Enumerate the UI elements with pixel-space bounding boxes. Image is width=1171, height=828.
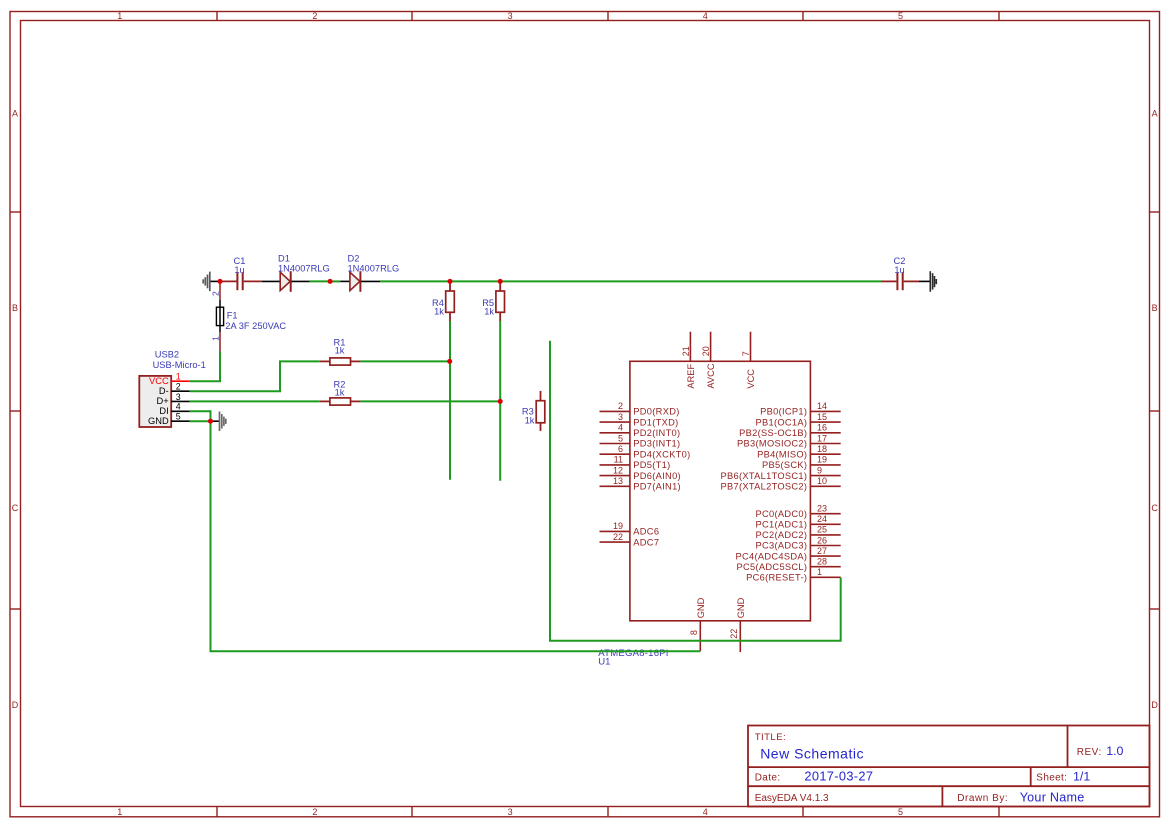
svg-text:3: 3	[508, 807, 513, 817]
svg-text:8: 8	[689, 630, 699, 635]
svg-text:1: 1	[176, 372, 181, 382]
resistor R2 1k	[320, 379, 361, 405]
wire R5 bottom stub	[499, 321, 501, 481]
svg-text:19: 19	[817, 455, 827, 465]
svg-text:20: 20	[701, 346, 711, 356]
svg-text:PD1(TXD): PD1(TXD)	[633, 417, 678, 427]
svg-text:PB7(XTAL2TOSC2): PB7(XTAL2TOSC2)	[720, 482, 807, 492]
svg-text:D1: D1	[278, 253, 290, 263]
svg-text:TITLE:: TITLE:	[755, 732, 787, 743]
svg-text:2: 2	[211, 291, 221, 296]
svg-text:AREF: AREF	[686, 363, 696, 388]
svg-text:PB1(OC1A): PB1(OC1A)	[756, 417, 808, 427]
svg-text:USB2: USB2	[155, 350, 179, 360]
svg-text:D+: D+	[157, 396, 169, 406]
svg-text:D: D	[12, 700, 19, 710]
svg-text:GND: GND	[148, 416, 169, 426]
svg-text:New Schematic: New Schematic	[760, 745, 864, 761]
title block	[748, 726, 1150, 807]
svg-text:A: A	[1152, 109, 1158, 119]
svg-text:A: A	[12, 109, 18, 119]
svg-text:VCC: VCC	[149, 376, 169, 386]
svg-text:C: C	[1151, 503, 1158, 513]
svg-text:5: 5	[618, 433, 623, 443]
wire R4 bottom stub	[449, 321, 451, 480]
resistor R1 1k	[320, 337, 361, 365]
node junction (R1 / R4 column)	[447, 359, 452, 364]
svg-text:9: 9	[817, 465, 822, 475]
svg-text:USB-Micro-1: USB-Micro-1	[153, 360, 206, 370]
svg-text:26: 26	[817, 535, 827, 545]
svg-text:11: 11	[614, 455, 623, 465]
wire net from x550 down to RESET pin	[550, 341, 841, 641]
svg-text:GND: GND	[736, 597, 746, 618]
svg-text:5: 5	[898, 11, 903, 21]
wire R2 right to R5 column	[360, 400, 500, 402]
svg-text:15: 15	[817, 412, 827, 422]
svg-text:C: C	[12, 503, 19, 513]
svg-text:2A 3F 250VAC: 2A 3F 250VAC	[225, 321, 286, 331]
svg-text:1N4007RLG: 1N4007RLG	[348, 263, 400, 273]
svg-text:PD5(T1): PD5(T1)	[633, 460, 670, 470]
wire DI: USB pin4 bend down	[190, 411, 211, 421]
svg-text:3: 3	[508, 11, 513, 21]
svg-text:PB2(SS-OC1B): PB2(SS-OC1B)	[739, 428, 807, 438]
wire D+: USB pin3 to R2 left	[190, 400, 320, 402]
resistor R5 1k	[482, 281, 504, 321]
svg-text:Date:: Date:	[755, 773, 781, 784]
svg-text:PC0(ADC0): PC0(ADC0)	[756, 509, 808, 519]
svg-text:28: 28	[817, 557, 827, 567]
svg-text:F1: F1	[227, 310, 238, 320]
svg-text:1.0: 1.0	[1106, 744, 1123, 758]
wire GND: USB pin5 to ground node	[190, 420, 211, 422]
svg-text:1k: 1k	[434, 307, 444, 317]
svg-text:PC6(RESET-): PC6(RESET-)	[746, 573, 807, 583]
IC U1 ATMEGA8-16PI body	[630, 361, 811, 621]
svg-text:Your Name: Your Name	[1020, 790, 1085, 804]
svg-text:1N4007RLG: 1N4007RLG	[278, 263, 330, 273]
U1 left pins PD0-PD7	[600, 401, 691, 491]
svg-text:PD3(INT1): PD3(INT1)	[633, 439, 680, 449]
svg-text:PC3(ADC3): PC3(ADC3)	[756, 541, 808, 551]
svg-text:VCC: VCC	[746, 369, 756, 389]
svg-text:PD4(XCKT0): PD4(XCKT0)	[633, 449, 690, 459]
U1 right pins PB0-PB7	[720, 401, 840, 491]
resistor R4 1k	[432, 281, 454, 321]
svg-text:U1: U1	[598, 656, 610, 667]
svg-text:EasyEDA V4.1.3: EasyEDA V4.1.3	[755, 793, 829, 804]
svg-text:1: 1	[211, 336, 221, 341]
svg-text:2: 2	[618, 401, 623, 411]
svg-text:Sheet:: Sheet:	[1036, 773, 1067, 784]
svg-text:1k: 1k	[525, 415, 535, 425]
node junction (top rail / F1 branch)	[218, 279, 223, 284]
capacitor C1 1u	[220, 256, 262, 290]
fuse F1 2A 3F 250VAC	[211, 281, 287, 351]
ground (USB GND earth symbol)	[211, 412, 226, 432]
svg-text:PD7(AIN1): PD7(AIN1)	[633, 482, 681, 492]
svg-text:18: 18	[817, 444, 827, 454]
svg-text:PC5(ADC5SCL): PC5(ADC5SCL)	[737, 562, 808, 572]
svg-text:REV:: REV:	[1077, 747, 1102, 758]
svg-text:5: 5	[176, 412, 181, 422]
svg-text:22: 22	[613, 532, 623, 542]
capacitor C2 1u	[881, 256, 919, 290]
svg-text:PD6(AIN0): PD6(AIN0)	[633, 471, 681, 481]
svg-text:10: 10	[817, 476, 827, 486]
svg-text:7: 7	[741, 351, 751, 356]
node junction (top rail / R4)	[448, 279, 453, 284]
svg-text:27: 27	[817, 546, 827, 556]
svg-text:4: 4	[176, 402, 181, 412]
svg-text:PB3(MOSIOC2): PB3(MOSIOC2)	[737, 439, 807, 449]
svg-text:1: 1	[117, 807, 122, 817]
wire VCC: USB pin1 to F1	[190, 352, 220, 382]
svg-text:PD0(RXD): PD0(RXD)	[633, 407, 679, 417]
svg-text:1: 1	[117, 11, 122, 21]
svg-text:3: 3	[618, 412, 623, 422]
wire top net (green segments on main horizontal rail)	[310, 280, 881, 282]
svg-text:1u: 1u	[234, 265, 244, 275]
U1 top pins 21 AREF / 20 AVCC / 7 VCC	[681, 332, 756, 389]
node junction (D1/D2 midpoint)	[328, 279, 333, 284]
svg-text:B: B	[12, 303, 18, 313]
U1 reference labels ATMEGA8-16PI / U1	[598, 648, 668, 667]
svg-text:13: 13	[613, 476, 623, 486]
svg-text:4: 4	[703, 807, 708, 817]
svg-text:PD2(INT0): PD2(INT0)	[633, 428, 680, 438]
svg-text:1k: 1k	[335, 388, 345, 398]
svg-text:2: 2	[312, 11, 317, 21]
diode D1 1N4007RLG	[262, 253, 330, 292]
wire R1 right to R4 column	[360, 360, 449, 362]
svg-text:24: 24	[817, 514, 827, 524]
svg-text:PC4(ADC4SDA): PC4(ADC4SDA)	[736, 551, 808, 561]
resistor R3 1k	[522, 391, 545, 431]
wire D-: USB pin2 to R1 left	[190, 361, 320, 391]
node junction (USB DI/GND)	[208, 419, 213, 424]
svg-text:AVCC: AVCC	[706, 363, 716, 388]
svg-text:23: 23	[817, 504, 827, 514]
svg-text:17: 17	[817, 433, 827, 443]
svg-text:PB4(MISO): PB4(MISO)	[757, 449, 807, 459]
svg-text:2017-03-27: 2017-03-27	[804, 769, 873, 784]
svg-text:PC2(ADC2): PC2(ADC2)	[756, 530, 808, 540]
svg-text:1u: 1u	[894, 265, 904, 275]
svg-text:21: 21	[681, 346, 691, 356]
diode D2 1N4007RLG	[340, 253, 399, 292]
svg-text:16: 16	[817, 423, 827, 433]
svg-text:5: 5	[898, 807, 903, 817]
svg-text:PB5(SCK): PB5(SCK)	[762, 460, 807, 470]
node junction (top rail / R5)	[498, 279, 503, 284]
svg-text:2: 2	[312, 807, 317, 817]
svg-text:1/1: 1/1	[1073, 770, 1090, 784]
svg-text:DI: DI	[159, 406, 168, 416]
svg-text:PB6(XTAL1TOSC1): PB6(XTAL1TOSC1)	[720, 471, 807, 481]
U1 right pins PC0-PC6	[736, 504, 841, 583]
U1 bottom pins 8 GND / 22 GND	[689, 597, 746, 652]
svg-text:4: 4	[703, 11, 708, 21]
svg-text:D-: D-	[159, 386, 169, 396]
node junction (D+ / R5 column)	[498, 399, 503, 404]
svg-text:B: B	[1152, 303, 1158, 313]
svg-text:14: 14	[817, 401, 827, 411]
ground (left earth symbol at top rail)	[203, 272, 220, 292]
ground (right earth symbol after C2)	[919, 271, 936, 292]
svg-text:12: 12	[613, 465, 623, 475]
svg-text:22: 22	[729, 629, 739, 639]
U1 left pins ADC6/ADC7	[600, 521, 660, 547]
svg-text:3: 3	[176, 392, 181, 402]
svg-text:25: 25	[817, 525, 827, 535]
svg-text:1k: 1k	[335, 346, 345, 356]
svg-text:4: 4	[618, 423, 623, 433]
svg-text:19: 19	[613, 521, 623, 531]
svg-text:2: 2	[176, 382, 181, 392]
svg-text:1: 1	[817, 567, 822, 577]
svg-text:6: 6	[618, 444, 623, 454]
svg-text:D2: D2	[348, 253, 360, 263]
svg-text:PC1(ADC1): PC1(ADC1)	[756, 520, 808, 530]
svg-text:Drawn By:: Drawn By:	[957, 793, 1008, 804]
svg-text:PB0(ICP1): PB0(ICP1)	[760, 407, 807, 417]
svg-text:1k: 1k	[484, 307, 494, 317]
svg-text:ADC7: ADC7	[633, 537, 659, 547]
wire USB ground node down to bottom rail and IC pin8	[211, 421, 701, 651]
connector USB2 USB-Micro-1	[139, 350, 206, 427]
svg-text:D: D	[1151, 700, 1158, 710]
svg-text:GND: GND	[696, 597, 706, 618]
svg-text:ADC6: ADC6	[633, 527, 659, 537]
